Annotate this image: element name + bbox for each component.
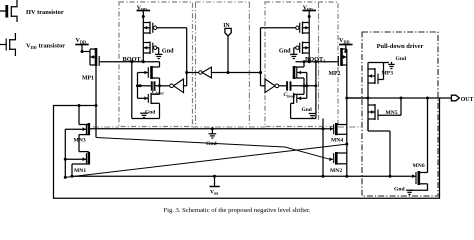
svg-text:Gnd: Gnd: [394, 187, 405, 193]
svg-text:MN5: MN5: [386, 110, 398, 116]
svg-text:Gnd: Gnd: [206, 141, 217, 147]
svg-text:MP3: MP3: [382, 71, 394, 77]
svg-text:Gnd: Gnd: [302, 107, 312, 113]
svg-text:MN1: MN1: [74, 168, 86, 174]
svg-text:MP2: MP2: [329, 71, 341, 77]
svg-text:Gnd: Gnd: [279, 48, 291, 55]
svg-text:MN4: MN4: [331, 138, 343, 144]
svg-text:Gnd: Gnd: [145, 109, 155, 115]
svg-text:MN6: MN6: [413, 163, 425, 169]
svg-text:MN3: MN3: [74, 138, 86, 144]
svg-text:Gnd: Gnd: [162, 48, 174, 55]
svg-text:HV transistor: HV transistor: [26, 9, 64, 16]
svg-text:OUT: OUT: [461, 97, 474, 103]
svg-text:MN2: MN2: [330, 168, 342, 174]
svg-text:Pull-down driver: Pull-down driver: [377, 43, 424, 50]
svg-text:MP1: MP1: [82, 76, 94, 82]
svg-text:Gnd: Gnd: [396, 56, 407, 62]
svg-text:Fig. 3. Schematic of the prop: Fig. 3. Schematic of the proposed negati…: [163, 207, 310, 214]
svg-text:transistor: transistor: [39, 43, 66, 50]
